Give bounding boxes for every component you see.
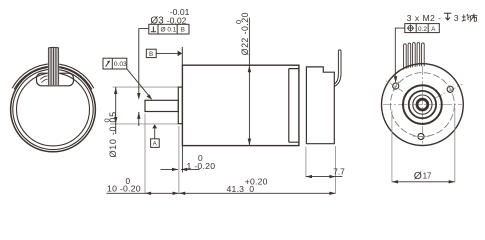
terminal pins (5 hairpin wires) xyxy=(404,44,407,70)
body end ring step line xyxy=(289,69,299,143)
kanji 均 xyxy=(462,14,471,21)
end cap with stepped top xyxy=(306,67,334,144)
wire bundle background xyxy=(48,48,59,85)
arrow at cap end xyxy=(329,192,335,195)
Ø10 dimension line xyxy=(115,87,117,134)
svg-text:3 x M2 -: 3 x M2 - xyxy=(407,13,442,23)
center boss circle xyxy=(403,85,442,124)
svg-text:10 -0.20: 10 -0.20 xyxy=(107,184,141,194)
M2 hole top-left xyxy=(393,83,399,89)
motor outline circle xyxy=(382,64,464,146)
inner circle xyxy=(413,95,432,114)
bottom dimension line (10 and 41.3) xyxy=(107,192,336,194)
svg-text:A: A xyxy=(431,26,436,33)
motor rim circle xyxy=(13,69,93,149)
svg-text:3: 3 xyxy=(454,13,459,23)
leader from position FCF to top-left hole xyxy=(395,28,405,76)
Ø17 dimension line xyxy=(392,181,455,183)
bolt circle Ø17 xyxy=(390,73,454,137)
depth symbol xyxy=(444,13,451,20)
svg-text:+0.20: +0.20 xyxy=(245,176,268,186)
M2 hole bottom xyxy=(418,133,424,139)
wire bundle top cap xyxy=(48,46,58,49)
svg-text:Ø22 -0.20: Ø22 -0.20 xyxy=(240,12,250,55)
svg-text:0.2: 0.2 xyxy=(418,26,427,33)
extension line shaft tip xyxy=(144,114,146,194)
Ø3 dimension leader from FCF xyxy=(139,29,149,94)
Ø10 bottom extension line xyxy=(110,123,178,125)
runout FCF 0.03 xyxy=(103,58,127,69)
svg-text:A: A xyxy=(153,141,158,148)
motor body Ø22 xyxy=(182,65,299,145)
M2 hole top-right xyxy=(447,86,453,92)
svg-text:Ø3: Ø3 xyxy=(150,16,164,27)
dimension 1 -0.20 (boss length) xyxy=(161,168,179,170)
svg-text:0: 0 xyxy=(234,20,243,24)
extension line cap start xyxy=(305,147,307,178)
extension line boss face xyxy=(178,126,180,193)
position FCF 0.2 A xyxy=(405,24,440,33)
horizontal centerline xyxy=(383,104,462,106)
bearing circle xyxy=(409,91,436,118)
Ø22 dimension line xyxy=(248,18,250,146)
vertical centerline xyxy=(421,66,423,144)
svg-text:Ø: Ø xyxy=(414,171,422,182)
shaft bore ring xyxy=(417,99,428,110)
radial centerline through top-right hole xyxy=(434,84,463,99)
extension line body left edge down xyxy=(181,146,183,173)
boss Ø10 x 1 xyxy=(178,87,182,124)
svg-text:Ø10 -0.05: Ø10 -0.05 xyxy=(108,111,118,157)
wire bend arcs inside clip xyxy=(40,76,48,83)
shaft Ø3 xyxy=(145,100,178,111)
wire loop arc outer xyxy=(12,64,94,88)
runout leader to shaft xyxy=(127,69,150,98)
motor outer circle xyxy=(11,67,96,152)
svg-text:17: 17 xyxy=(423,172,432,181)
svg-text:Ø 0.1: Ø 0.1 xyxy=(161,27,177,34)
Ø10 top extension line xyxy=(113,86,179,88)
wire loop arc inner xyxy=(14,66,92,89)
kanji 布 xyxy=(471,14,478,22)
datum A symbol xyxy=(152,124,157,128)
svg-text:0.03: 0.03 xyxy=(114,61,127,68)
terminal wire loop at cap xyxy=(334,51,341,86)
wire clip (rounded rectangle) xyxy=(37,73,74,86)
Ø17 extension lines xyxy=(391,110,393,182)
svg-text:B: B xyxy=(149,51,153,58)
dimension 7.7 (cap length) xyxy=(306,176,342,178)
svg-text:41.3: 41.3 xyxy=(227,184,245,194)
arrows at boss face xyxy=(173,192,179,195)
inner circle xyxy=(17,73,90,146)
svg-text:B: B xyxy=(181,27,185,34)
datum B box and leader xyxy=(146,49,156,57)
arrow at shaft tip xyxy=(145,192,151,195)
wire bundle lines xyxy=(48,48,58,85)
body left edge extension up (datum B target) xyxy=(181,47,183,65)
svg-text:0: 0 xyxy=(102,118,111,122)
extension line cap end / total length xyxy=(335,146,337,193)
svg-text:1 -0.20: 1 -0.20 xyxy=(187,161,216,171)
feature control frame perpendicularity Ø0.1 B xyxy=(149,24,189,34)
svg-text:7.7: 7.7 xyxy=(333,166,345,176)
